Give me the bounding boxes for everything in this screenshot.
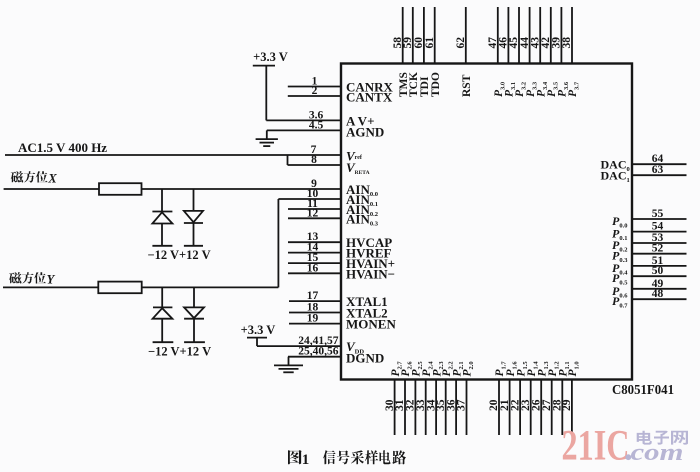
diode D1 (clamp to -12V) xyxy=(152,211,172,213)
wire AC input to pin 7 xyxy=(5,154,341,156)
pin label P1.0 xyxy=(567,361,581,376)
svg-text:+3.3 V: +3.3 V xyxy=(253,50,288,64)
pin number 26 xyxy=(530,399,542,411)
svg-text:54: 54 xyxy=(652,221,664,233)
pin number 35 xyxy=(435,399,447,411)
svg-text:2: 2 xyxy=(312,85,318,97)
pin label P1.1 xyxy=(558,361,572,376)
wire pin 43 P3.4 xyxy=(539,7,541,64)
pin number 34 xyxy=(425,399,437,411)
wire pin 28 P1.1 xyxy=(561,380,563,436)
pin number 28 xyxy=(552,399,564,411)
pin label P2.2 xyxy=(441,361,455,376)
pin number 62 xyxy=(455,37,467,49)
wire pin 8 VREFA xyxy=(288,164,342,166)
svg-text:50: 50 xyxy=(652,265,664,277)
svg-text:RST: RST xyxy=(461,74,473,97)
pin label P1.3 xyxy=(536,361,550,377)
wire pin 54 P0.1 xyxy=(632,231,687,233)
pin label P2.4 xyxy=(421,361,435,377)
pin number 33 xyxy=(415,399,427,411)
svg-text:1: 1 xyxy=(302,452,310,468)
pin number 20 xyxy=(488,399,500,411)
svg-text:12: 12 xyxy=(307,207,319,219)
wire pin 16 HVAIN− xyxy=(288,272,341,274)
svg-text:AGND: AGND xyxy=(346,124,384,139)
svg-text:21IC: 21IC xyxy=(562,423,630,470)
svg-text:19: 19 xyxy=(307,313,319,325)
wire D1 to -12V xyxy=(161,224,163,246)
wire pin 47 P3.0 xyxy=(497,7,499,64)
wire pin 36 P2.1 xyxy=(455,380,457,436)
pin label P2.5 xyxy=(411,361,425,377)
pin label TCK xyxy=(408,72,420,97)
pin label P3.4 xyxy=(535,81,549,97)
wire pin 32 P2.5 xyxy=(414,380,416,436)
wire pin 4,5 AGND xyxy=(267,129,341,131)
pin label P3.5 xyxy=(546,81,560,97)
pin number 36 xyxy=(445,399,457,411)
wire pin 30 P2.7 xyxy=(394,380,396,436)
net label magnetic-bearing X (CJK) xyxy=(11,171,23,182)
pin label P1.6 xyxy=(505,361,519,377)
wire pins 24,41,57 VDD xyxy=(257,345,341,347)
power +3.3V rail bar xyxy=(247,337,267,339)
wire pin 61 TDO xyxy=(434,7,436,64)
wire to diode D1 xyxy=(161,189,163,212)
pin number 30 xyxy=(384,399,396,411)
pin label P2.1 xyxy=(451,361,465,376)
wire pin 51 P0.4 xyxy=(632,265,687,267)
svg-text:62: 62 xyxy=(455,37,467,49)
svg-text:37: 37 xyxy=(456,399,468,411)
wire pin 20 P1.7 xyxy=(498,380,500,436)
pin number 58 xyxy=(392,37,404,49)
pin label P1.4 xyxy=(526,361,540,377)
wire +3.3V to AV+ xyxy=(265,66,267,121)
pin label P2.0 xyxy=(462,361,476,376)
pin number 42 xyxy=(540,37,552,49)
wire pin 17 XTAL1 xyxy=(289,300,341,302)
pin label TMS xyxy=(398,72,410,97)
svg-text:52: 52 xyxy=(652,243,664,255)
wire jog pin7 to pin8 xyxy=(287,155,289,165)
wire pin 2 CANTX xyxy=(288,95,341,97)
wire pin 26 P1.3 xyxy=(540,380,542,436)
pin number 21 xyxy=(499,399,511,411)
pin label P1.7 xyxy=(494,361,508,377)
wire pin 55 P0.0 xyxy=(632,218,687,220)
diode D4 (clamp to +12V) xyxy=(184,307,204,318)
wire pin 19 MONEN xyxy=(289,323,341,325)
diode D3 (clamp to -12V) xyxy=(153,306,172,308)
svg-text:+3.3 V: +3.3 V xyxy=(241,323,276,337)
wire pin 37 P2.0 xyxy=(466,380,468,436)
pin number 22 xyxy=(509,399,521,411)
wire DGND down xyxy=(288,357,290,366)
op-amp/IC U1 C8051F041 body xyxy=(341,64,632,380)
svg-text:AC1.5 V 400 Hz: AC1.5 V 400 Hz xyxy=(18,140,107,155)
wire AGND down xyxy=(266,130,268,139)
pin number 60 xyxy=(413,37,425,49)
wire to diode D2 xyxy=(193,189,195,211)
wire pin 10 AIN0.1 (from Y bus) xyxy=(278,198,341,200)
wire +3.3V to VDD xyxy=(256,338,258,347)
wire pin 58 TMS xyxy=(402,7,404,64)
svg-text:−12 V+12 V: −12 V+12 V xyxy=(148,248,211,262)
svg-text:DAC1: DAC1 xyxy=(601,168,630,184)
wire pin 22 P1.5 xyxy=(519,380,521,436)
pin number 32 xyxy=(405,399,417,411)
wire D3 to -12V xyxy=(161,319,163,343)
pin number 47 xyxy=(487,37,499,49)
wire pin 13 HVCAP xyxy=(288,241,341,243)
wire pin 21 P1.6 xyxy=(509,380,511,436)
wire pin 33 P2.4 xyxy=(425,380,427,436)
pin label P3.0 xyxy=(493,82,507,97)
pin number 31 xyxy=(394,399,406,411)
pin number 37 xyxy=(456,399,468,411)
wire pin 49 P0.6 xyxy=(632,288,687,290)
wire pin 44 P3.3 xyxy=(529,7,531,64)
pin number 44 xyxy=(519,37,531,49)
wire pin 38 P3.7 xyxy=(571,7,573,64)
wire pin 50 P0.5 xyxy=(632,275,687,277)
svg-text:25,40,56: 25,40,56 xyxy=(298,346,339,358)
pin number 27 xyxy=(541,399,553,411)
wire pin 64 DAC0 xyxy=(632,163,687,165)
svg-text:X: X xyxy=(47,171,57,185)
svg-text:17: 17 xyxy=(307,290,319,302)
wire pin 15 HVAIN+ xyxy=(288,262,341,264)
wire pin 14 HVREF xyxy=(288,252,341,254)
wire pin 39 P3.6 xyxy=(560,7,562,64)
wire pin 35 P2.2 xyxy=(445,380,447,436)
wire pin 12 AIN0.3 xyxy=(288,217,341,219)
svg-text:4.5: 4.5 xyxy=(309,119,324,131)
svg-text:CANTX: CANTX xyxy=(346,90,393,105)
wire pin 31 P2.6 xyxy=(404,380,406,436)
wire pin 45 P3.2 xyxy=(518,7,520,64)
wire pin 48 P0.7 xyxy=(632,298,687,300)
pin label P3.7 xyxy=(567,81,581,97)
svg-text:HVAIN−: HVAIN− xyxy=(346,266,395,281)
svg-text:29: 29 xyxy=(561,399,573,411)
pin number 46 xyxy=(498,37,510,49)
logo CJK 电子网 xyxy=(637,431,652,445)
pin label P3.1 xyxy=(504,82,518,97)
svg-text:48: 48 xyxy=(652,288,664,300)
power -12V terminal bar xyxy=(153,341,174,343)
power +12V terminal bar xyxy=(184,341,205,343)
pin label P3.6 xyxy=(557,81,571,97)
wire Y input to bus xyxy=(3,286,278,288)
svg-text:VRETA: VRETA xyxy=(346,160,370,176)
wire pin 60 TDI xyxy=(423,7,425,64)
wire pin 23 P1.4 xyxy=(530,380,532,436)
resistor R2 xyxy=(98,282,141,294)
wire pin 3,6 AV+ xyxy=(266,119,341,121)
svg-text:MONEN: MONEN xyxy=(346,317,396,332)
logo dot xyxy=(625,454,631,460)
pin number 61 xyxy=(424,37,436,49)
wire Y bus vertical xyxy=(277,199,279,287)
pin label P2.3 xyxy=(431,361,445,377)
wire D4 to +12V xyxy=(193,319,195,343)
pin label TDO xyxy=(430,72,442,97)
pin label P3.2 xyxy=(514,82,528,97)
svg-text:DGND: DGND xyxy=(346,351,384,366)
pin number 39 xyxy=(551,37,563,49)
wire to diode D3 xyxy=(161,287,163,307)
resistor R1 xyxy=(99,183,142,195)
pin number 45 xyxy=(508,37,520,49)
pin label P1.5 xyxy=(515,361,529,377)
svg-text:−12 V+12 V: −12 V+12 V xyxy=(148,345,211,359)
power -12V terminal bar xyxy=(152,245,172,247)
pin number 38 xyxy=(561,37,573,49)
wire to diode D4 xyxy=(193,287,195,307)
wire pin 1 CANRX xyxy=(288,86,341,88)
wire pin 29 P1.0 xyxy=(571,380,573,436)
wire pin 42 P3.5 xyxy=(550,7,552,64)
wire D2 to +12V xyxy=(193,223,195,246)
svg-text:63: 63 xyxy=(652,164,664,176)
svg-text:com: com xyxy=(631,440,684,466)
pin number 29 xyxy=(561,399,573,411)
pin label P3.3 xyxy=(525,81,539,97)
wire pins 25,40,56 DGND xyxy=(288,356,341,358)
svg-text:61: 61 xyxy=(424,37,436,49)
wire pin 59 TCK xyxy=(412,7,414,64)
svg-text:C8051F041: C8051F041 xyxy=(612,383,674,398)
wire pin 52 P0.3 xyxy=(632,253,687,255)
pin number 23 xyxy=(520,399,532,411)
wire pin 27 P1.2 xyxy=(551,380,553,436)
pin label P2.6 xyxy=(400,361,414,377)
power +3.3V rail bar xyxy=(253,65,275,67)
svg-text:16: 16 xyxy=(307,262,319,274)
pin label RST xyxy=(461,74,473,97)
wire X input to pin 9 xyxy=(4,188,341,190)
wire pin 63 DAC1 xyxy=(632,174,687,176)
wire pin 11 AIN0.2 xyxy=(288,208,341,210)
ground (analog AGND) xyxy=(256,138,278,140)
wire pin 18 XTAL2 xyxy=(289,312,341,314)
pin label TDI xyxy=(419,76,431,97)
svg-text:TDO: TDO xyxy=(430,72,442,97)
wire pin 62 RST xyxy=(465,7,467,64)
pin label P2.7 xyxy=(390,361,404,377)
svg-text:Y: Y xyxy=(47,272,56,286)
power +12V terminal bar xyxy=(184,245,203,247)
wire pin 53 P0.2 xyxy=(632,242,687,244)
caption: Fig.1 signal sampling circuit (CJK) xyxy=(288,450,302,464)
svg-text:38: 38 xyxy=(561,37,573,49)
wire pin 46 P3.1 xyxy=(507,7,509,64)
svg-text:55: 55 xyxy=(652,208,664,220)
pin label P1.2 xyxy=(547,361,561,376)
wire pin 34 P2.3 xyxy=(435,380,437,436)
svg-text:8: 8 xyxy=(311,154,317,166)
pin number 43 xyxy=(529,37,541,49)
diode D2 (clamp to +12V) xyxy=(184,211,203,222)
net label magnetic-bearing Y (CJK) xyxy=(9,272,21,283)
ground (digital DGND) xyxy=(274,364,303,366)
pin number 59 xyxy=(402,37,414,49)
